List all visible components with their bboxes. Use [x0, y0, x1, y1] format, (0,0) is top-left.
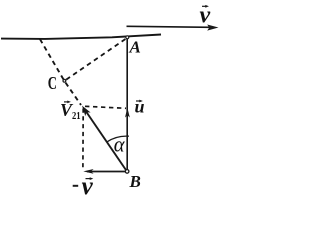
svg-text:A: A: [129, 38, 141, 57]
svg-text:v: v: [82, 173, 94, 197]
svg-text:u: u: [135, 97, 145, 117]
svg-text:α: α: [114, 131, 125, 156]
svg-text:21: 21: [72, 111, 81, 122]
svg-text:C: C: [48, 73, 57, 93]
svg-text:B: B: [129, 172, 141, 191]
